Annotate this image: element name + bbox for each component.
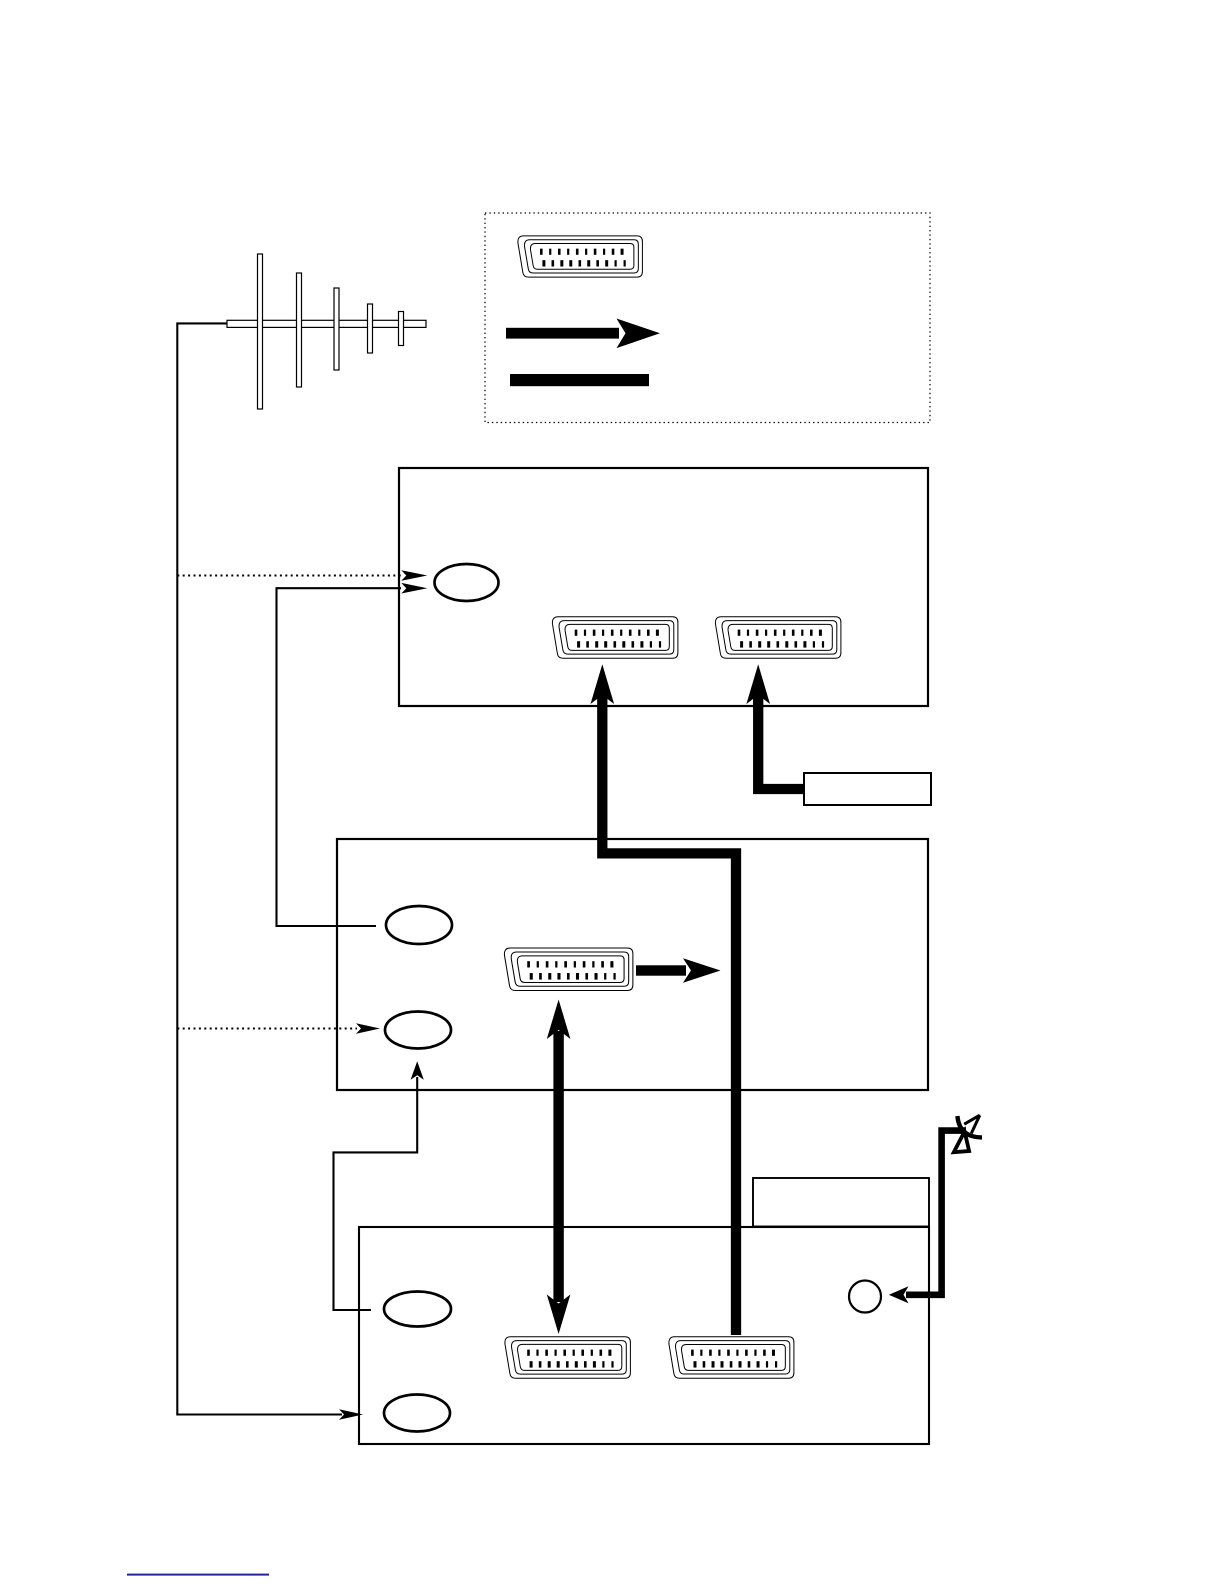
SCART connector (legend)	[518, 236, 643, 277]
label box (decoder)	[804, 773, 931, 805]
satellite dish icon	[954, 1115, 982, 1152]
antenna element 5	[399, 312, 404, 346]
cable A arrowhead at TV SCART1	[591, 664, 615, 704]
TV box	[399, 468, 928, 706]
antenna element 3	[334, 288, 339, 370]
cable bar (legend)	[510, 374, 649, 386]
antenna element 2	[297, 273, 302, 387]
TV SCART 1	[552, 617, 678, 659]
dotted wire aerial to VCR aerial-in	[177, 1028, 357, 1030]
receiver aerial-in ellipse	[384, 1395, 450, 1432]
wire TV down to VCR aerial-out	[277, 588, 402, 926]
footer link line	[127, 1574, 269, 1576]
legend box	[485, 213, 930, 423]
wire receiver aerial-out to VCR aerial-in	[334, 1077, 418, 1310]
arrowhead into TV aerial socket (solid)	[401, 583, 427, 594]
TV SCART 2	[715, 617, 841, 659]
receiver LNB socket circle	[849, 1281, 881, 1313]
receiver aerial-out ellipse	[384, 1292, 451, 1327]
VCR box	[337, 839, 928, 1090]
antenna element 1	[258, 254, 263, 409]
VCR aerial-out ellipse	[386, 906, 452, 944]
receiver SCART 2	[669, 1337, 794, 1378]
receiver tab box	[753, 1178, 929, 1227]
wire aerial feed to satellite receiver	[177, 323, 342, 1414]
cable B arrowhead at TV SCART2	[746, 664, 770, 704]
antenna boom	[227, 320, 426, 327]
receiver SCART 1	[505, 1337, 631, 1379]
VCR SCART	[504, 948, 632, 991]
arrowhead into receiver aerial-in	[339, 1409, 363, 1420]
signal arrow (legend)	[506, 328, 619, 339]
cable B: label box to TV scart2	[758, 692, 803, 789]
antenna element 4	[368, 304, 373, 353]
arrowhead into LNB socket	[889, 1286, 909, 1303]
satellite dish cable	[906, 1131, 966, 1295]
cable C: VCR scart to receiver scart1 (double arrow)	[553, 1031, 563, 1302]
arrowhead up into VCR aerial-in	[411, 1061, 424, 1080]
receiver box	[359, 1227, 929, 1444]
VCR aerial-in ellipse	[385, 1012, 451, 1049]
cable A: VCR scart to TV scart1 then down to receiver scart2	[602, 692, 736, 1335]
TV aerial socket ellipse	[435, 564, 499, 601]
VCR scart out arrow	[636, 965, 686, 975]
dotted wire aerial to TV socket	[177, 575, 402, 577]
